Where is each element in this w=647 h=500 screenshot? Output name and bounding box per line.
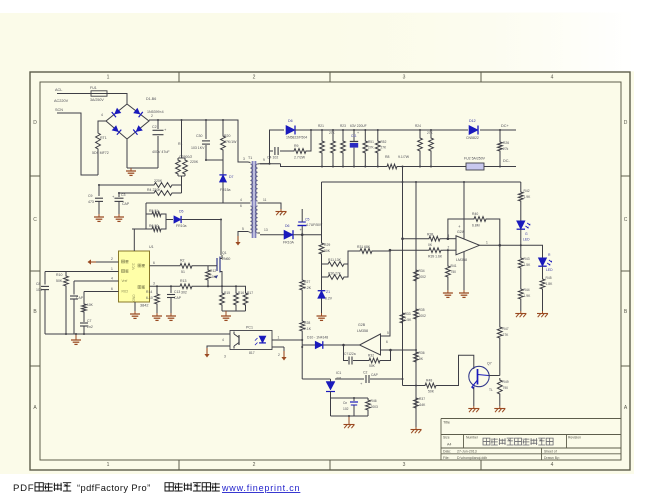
optocoupler PC1 pin wires [272, 339, 302, 341]
svg-text:D12: D12 [469, 119, 476, 123]
svg-text:Cn: Cn [343, 401, 347, 405]
IC pin4 wire [74, 280, 119, 282]
svg-text:1.5K: 1.5K [524, 263, 532, 267]
svg-text:1: 1 [111, 267, 113, 271]
resistor R34 2002 [414, 268, 419, 283]
svg-text:27K: 27K [427, 131, 434, 135]
svg-text:50K: 50K [324, 249, 331, 253]
frame column ticks [30, 72, 630, 470]
op-amp G2B LM358 [360, 334, 381, 355]
svg-text:27k: 27k [503, 147, 509, 151]
svg-text:3842: 3842 [140, 304, 148, 308]
svg-text:R44: R44 [524, 288, 530, 292]
svg-text:103 1KV: 103 1KV [191, 146, 205, 150]
op-amp G2A LM358 [456, 236, 480, 255]
ground bottom-left rail [75, 334, 77, 337]
wire snubber right join [163, 214, 166, 229]
svg-text:U1: U1 [149, 245, 154, 249]
svg-text:DC-: DC- [503, 159, 510, 163]
capacitor C9 473 [95, 197, 103, 199]
diode D9 FR10A [284, 230, 293, 239]
wire bridge left vertex to RT1 [98, 121, 106, 131]
wire secondary mid to ground [260, 203, 281, 209]
svg-text:CN5822: CN5822 [466, 136, 479, 140]
optocoupler PC1 phototransistor [238, 335, 240, 345]
diode D5 FR10a [166, 219, 173, 221]
wire op-amp V+ supply [463, 182, 465, 239]
svg-text:R11 13K: R11 13K [328, 258, 342, 262]
svg-text:D6: D6 [285, 224, 290, 228]
ground under Q7 [473, 406, 475, 409]
IC pin1 long wire left [45, 271, 119, 273]
wire aux column to TL431 [302, 378, 330, 380]
capacitor C7 2n2 [83, 314, 85, 322]
svg-text:D10 - 1N4148: D10 - 1N4148 [307, 336, 328, 340]
svg-text:R45: R45 [546, 276, 552, 280]
resistor R10 50K [65, 272, 67, 275]
fuse FU2 5A/250V [466, 163, 484, 170]
svg-text:1N5399×4: 1N5399×4 [147, 110, 164, 114]
wire G LED to R43 [520, 245, 522, 256]
svg-text:64K: 64K [420, 403, 427, 407]
filter bank resistor R23 27K [342, 130, 344, 139]
svg-text:Size: Size [443, 436, 450, 440]
wire feedback bottom rail to PC1 [45, 333, 230, 335]
ground under R45 [542, 311, 544, 314]
svg-text:R51: R51 [368, 140, 374, 144]
ground under C9 [98, 214, 100, 217]
svg-text:4.7UF/50V: 4.7UF/50V [306, 223, 323, 227]
svg-text:1.9K: 1.9K [524, 195, 532, 199]
svg-text:R21: R21 [318, 124, 324, 128]
svg-text:C30: C30 [196, 134, 202, 138]
diode D12 CN5822 [469, 126, 478, 135]
svg-text:0.5K: 0.5K [405, 318, 413, 322]
svg-text:DC+: DC+ [501, 124, 509, 128]
resistor R37 64K [414, 396, 419, 410]
svg-text:GND: GND [132, 294, 136, 302]
svg-text:9: 9 [263, 158, 265, 162]
wire sense resistor bottoms [222, 310, 246, 312]
wire primary top rail [149, 120, 248, 162]
svg-text:R39 1.6K: R39 1.6K [428, 255, 443, 259]
capacitor C3 [115, 197, 124, 199]
transistor Q7 [469, 366, 489, 386]
svg-text:6.8M: 6.8M [472, 224, 480, 228]
capacitor C30 103 1KV [205, 120, 207, 139]
IC U1 top VCC pin [133, 229, 135, 251]
svg-text:Z1: Z1 [326, 290, 330, 294]
svg-text:D7: D7 [229, 175, 234, 179]
bleeder resistor R25 27K [430, 130, 432, 136]
sense resistor R17 [245, 286, 247, 291]
ground under R41 [447, 290, 449, 293]
svg-text:750: 750 [451, 270, 457, 274]
svg-text:2.2K: 2.2K [304, 286, 312, 290]
svg-text:Date:: Date: [443, 450, 451, 454]
resistor R48 50K [423, 383, 438, 388]
ground under IC U1 [134, 311, 136, 314]
svg-text:R36: R36 [419, 351, 425, 355]
svg-text:C13: C13 [174, 290, 180, 294]
resistor R27 2.2K [300, 278, 305, 292]
svg-text:27K: 27K [381, 146, 388, 150]
svg-text:3: 3 [224, 355, 226, 359]
IC U1 internal pin names [122, 260, 129, 263]
svg-text:R9: R9 [294, 144, 299, 148]
transformer pin stubs [248, 162, 260, 233]
sense resistor R16 [235, 286, 237, 291]
wire R31 to pin2 node [374, 250, 390, 252]
wire Q7 collector [489, 375, 500, 377]
ground under R14 [156, 313, 158, 316]
svg-text:G2B: G2B [358, 323, 366, 327]
svg-text:D: D [624, 120, 628, 126]
svg-text:6: 6 [240, 204, 242, 208]
wire SCN down [57, 113, 98, 175]
power port below PC1 right [283, 351, 285, 357]
wire DC+ rail [295, 129, 468, 131]
svg-text:Q1: Q1 [222, 251, 227, 255]
wire C30 bottom to R20 branch [206, 159, 223, 161]
resistor R28 2.1K [300, 319, 305, 333]
svg-text:CAP: CAP [122, 202, 130, 206]
svg-text:FR10a: FR10a [176, 224, 187, 228]
svg-text:TL: TL [489, 388, 493, 392]
thermistor RT1 [97, 125, 99, 131]
svg-text:790: 790 [503, 386, 509, 390]
svg-text:R29: R29 [324, 243, 330, 247]
svg-text:1: 1 [107, 75, 110, 81]
wire TL431 lower network [331, 397, 369, 399]
zener Z1 6.2V [318, 291, 326, 299]
svg-text:R46: R46 [371, 399, 377, 403]
svg-text:3: 3 [153, 282, 155, 286]
svg-text:R14: R14 [146, 290, 152, 294]
ground secondary mid [280, 209, 282, 212]
svg-text:102: 102 [343, 407, 349, 411]
svg-text:47K/1W: 47K/1W [224, 140, 237, 144]
svg-text:2: 2 [111, 257, 113, 261]
svg-text:9.1/7W: 9.1/7W [398, 155, 410, 159]
svg-text:LM358: LM358 [456, 258, 467, 262]
svg-text:R52: R52 [381, 140, 387, 144]
svg-text:104: 104 [36, 288, 42, 292]
wire op-amp pin2 input [390, 249, 427, 251]
resistor R26 27k across output [499, 130, 501, 140]
svg-text:Q7: Q7 [487, 362, 492, 366]
svg-text:50K: 50K [369, 364, 376, 368]
title block frame [441, 419, 621, 461]
capacitor C10 CAP [73, 281, 75, 295]
resistor R33 0.5K [400, 311, 405, 325]
resistor R42 1.9K [520, 182, 522, 190]
svg-text:1.9K: 1.9K [524, 294, 532, 298]
svg-text:63V 220UF: 63V 220UF [350, 124, 367, 128]
resistor R13 302 [178, 284, 194, 289]
wire ACL to fuse [57, 93, 91, 95]
svg-text:SCN: SCN [55, 108, 63, 112]
wire Q7 emitter to ground [473, 388, 475, 407]
MOSFET Q1 2N60 [216, 258, 218, 271]
wire R48 to Q7 base jog [438, 355, 474, 385]
svg-text:6-10: 6-10 [146, 296, 153, 300]
resistor R29 50K [319, 241, 324, 256]
svg-text:1: 1 [278, 336, 280, 340]
wire comparator divider column [415, 182, 417, 427]
svg-text:CAP: CAP [174, 296, 182, 300]
capacitor C16 102 [353, 398, 355, 401]
watermark Chinese phrase 2 [165, 483, 220, 491]
svg-text:R2: R2 [180, 259, 185, 263]
wire R40 to output node [488, 219, 500, 245]
svg-text:5: 5 [387, 331, 389, 335]
capacitor C13 CAP [170, 286, 172, 293]
wire red LED branch [521, 245, 543, 257]
bleeder resistor R24 27K [419, 130, 421, 136]
capacitor C15 CAP [335, 378, 364, 380]
svg-text:5D9 MF72: 5D9 MF72 [92, 151, 109, 155]
wire sense divider column top [321, 182, 323, 241]
svg-text:1: 1 [107, 462, 110, 468]
transformer T1 core [252, 161, 256, 238]
transformer primary winding upper [250, 164, 252, 201]
svg-text:VCC: VCC [132, 262, 136, 269]
power port left of IC [91, 261, 96, 263]
ground under comparator divider [415, 427, 417, 430]
resistor R12 10K gate-source [207, 266, 209, 268]
svg-text:51: 51 [181, 270, 185, 274]
svg-text:6.2V: 6.2V [325, 297, 333, 301]
svg-text:2: 2 [278, 353, 280, 357]
svg-text:50K: 50K [428, 390, 435, 394]
wire PC1 ground leg [207, 346, 230, 348]
filter bank resistor R52 27K [377, 130, 379, 139]
title block Chinese title [483, 438, 553, 445]
wire R2 to Q1 gate [194, 265, 215, 267]
svg-text:ACL: ACL [55, 88, 62, 92]
svg-text:50K: 50K [56, 279, 63, 283]
svg-text:R10: R10 [56, 273, 62, 277]
svg-text:6: 6 [153, 261, 155, 265]
svg-text:LED: LED [523, 238, 530, 242]
wire VCC from R6 line [132, 228, 146, 230]
wire transformer mid tap [146, 202, 248, 204]
svg-text:R16: R16 [238, 291, 244, 295]
svg-text:R12: R12 [210, 269, 216, 273]
svg-text:R4 220K: R4 220K [147, 188, 161, 192]
svg-text:LED: LED [546, 268, 553, 272]
svg-text:27K: 27K [329, 131, 336, 135]
svg-text:R32: R32 [368, 354, 374, 358]
svg-text:C7: C7 [87, 319, 92, 323]
zener D7 FR15a [219, 175, 226, 182]
resistor R36 1.9K [414, 350, 419, 364]
svg-text:R6 50: R6 50 [149, 224, 158, 228]
resistor R19 10K [83, 292, 85, 303]
IC pin6 wire [84, 291, 119, 293]
wire fuse to bridge top [107, 94, 127, 105]
wire D9 to C5 node [293, 234, 322, 236]
svg-text:IC1: IC1 [336, 371, 341, 375]
optocoupler PC1 body [230, 331, 272, 350]
IC pin2 wire to power arrow [96, 261, 119, 263]
feedback wire to R40 [448, 219, 472, 239]
power port below PC1 left [206, 348, 208, 354]
svg-text:R28: R28 [304, 321, 310, 325]
svg-text:FR15a: FR15a [220, 188, 231, 192]
svg-text:CAP: CAP [76, 296, 84, 300]
svg-text:R24: R24 [415, 124, 421, 128]
bridge rectifier D1-B6 [106, 104, 149, 139]
svg-text:3: 3 [403, 462, 406, 468]
filter bank resistor R22 27K [332, 130, 334, 139]
transformer secondary winding lower [256, 206, 258, 233]
filter bank resistor R51 27K [364, 130, 366, 139]
wire secondary pin9 up [260, 130, 284, 164]
capacitor C14 122a integrator [344, 345, 349, 361]
outer border frame [30, 72, 630, 470]
capacitor C2 [157, 120, 159, 129]
wire op-amp pin3 input [403, 238, 428, 240]
resistor R11 13K [322, 263, 327, 265]
svg-text:C8: C8 [36, 282, 41, 286]
svg-text:R47: R47 [503, 327, 509, 331]
svg-text:2002: 2002 [419, 275, 427, 279]
svg-text:2N60: 2N60 [222, 257, 230, 261]
fuse FU1 [91, 91, 107, 96]
svg-text:220K: 220K [190, 160, 199, 164]
svg-text:R15: R15 [224, 291, 230, 295]
IC U1 bottom GND pin [134, 302, 136, 311]
svg-text:C4 102: C4 102 [267, 156, 278, 160]
svg-text:A4: A4 [447, 443, 451, 447]
svg-text:R34: R34 [419, 269, 425, 273]
svg-text:27K: 27K [503, 333, 510, 337]
svg-text:4: 4 [551, 462, 554, 468]
svg-text:3A/250V: 3A/250V [90, 98, 104, 102]
junction dots on rails [157, 119, 159, 121]
svg-text:C3: C3 [121, 193, 126, 197]
resistor R5 51 [150, 212, 163, 217]
svg-text:2: 2 [151, 114, 153, 118]
svg-text:10K: 10K [87, 303, 94, 307]
resistor R31 68K [358, 249, 374, 254]
svg-text:D:\chongdianqi.ddb: D:\chongdianqi.ddb [457, 456, 487, 460]
svg-text:Drawn By:: Drawn By: [544, 456, 560, 460]
svg-text:3: 3 [403, 75, 406, 81]
svg-text:R31 68K: R31 68K [357, 245, 371, 249]
svg-text:R42: R42 [524, 189, 530, 193]
wire op-amp output [480, 244, 521, 246]
svg-text:4: 4 [101, 113, 103, 117]
resistor R20 47K/1W [222, 120, 224, 134]
svg-text:1N5822/F504: 1N5822/F504 [286, 136, 307, 140]
svg-text:C2500/2: C2500/2 [179, 155, 192, 159]
svg-text:4: 4 [240, 198, 242, 202]
svg-text:Title: Title [443, 421, 450, 425]
svg-text:R37: R37 [419, 397, 425, 401]
resistor R35 2002 [414, 307, 419, 321]
svg-text:C9: C9 [88, 194, 93, 198]
ground under sense resistors [225, 313, 227, 316]
inner border frame [40, 82, 621, 460]
svg-text:2: 2 [253, 462, 256, 468]
wire G2B pin5 to pin2 node [381, 250, 391, 336]
svg-text:C11: C11 [351, 134, 357, 138]
svg-text:CAP: CAP [371, 373, 379, 377]
svg-text:G: G [525, 232, 528, 236]
LED R red [538, 258, 546, 266]
resistor R41 750 [447, 250, 449, 264]
svg-text:220K: 220K [154, 179, 163, 183]
svg-text:27K: 27K [368, 146, 375, 150]
svg-text:R20: R20 [224, 134, 230, 138]
svg-text:Number: Number [466, 436, 479, 440]
svg-text:C?122a: C?122a [344, 352, 356, 356]
svg-text:FR10A: FR10A [283, 241, 295, 245]
svg-text:PDF: PDF [13, 483, 34, 494]
svg-text:7: 7 [280, 213, 282, 217]
svg-text:AC220V: AC220V [54, 99, 69, 103]
svg-text:PC1: PC1 [246, 326, 253, 330]
transformer primary winding lower [250, 206, 252, 233]
power port primary bottom [237, 236, 239, 242]
resistor R32 50K integrator [367, 358, 382, 363]
ground under Z1 [321, 313, 323, 316]
svg-text:817: 817 [249, 351, 255, 355]
svg-text:D6: D6 [288, 119, 293, 123]
wire DC- rail [281, 164, 386, 167]
svg-text:FU1: FU1 [90, 86, 97, 90]
svg-text:11: 11 [263, 198, 267, 202]
svg-text:2.1K: 2.1K [304, 327, 312, 331]
resistor R47 27K [497, 325, 502, 340]
svg-text:R35: R35 [419, 308, 425, 312]
IC output pin wire [150, 265, 179, 267]
wire ground rail under bridge [127, 167, 158, 169]
resistor R30 27k [322, 276, 327, 278]
resistor R38 0K [427, 236, 442, 241]
wire D5 to Q1 drain [220, 220, 222, 256]
svg-text:2: 2 [253, 75, 256, 81]
svg-text:Vref: Vref [122, 279, 128, 283]
svg-text:T1: T1 [248, 156, 252, 160]
svg-text:5: 5 [242, 227, 244, 231]
svg-text:302: 302 [181, 291, 187, 295]
resistor R1 2500/2 [181, 120, 183, 158]
wire G2B pin6 feedback [381, 349, 417, 351]
wire output column down [499, 245, 501, 325]
resistor R43 1.5K [518, 256, 523, 270]
svg-text:3: 3 [243, 157, 245, 161]
wire TL431 network bottom [331, 415, 369, 417]
wire sense line [194, 285, 246, 287]
svg-text:R41: R41 [451, 264, 457, 268]
svg-text:+: + [458, 224, 461, 229]
resistor R8 9.1/7W [385, 164, 399, 169]
svg-text:4: 4 [111, 277, 113, 281]
resistor R40 6.8M [472, 217, 488, 222]
svg-text:400V 47uF: 400V 47uF [152, 150, 170, 154]
wire bridge bottom to ground [126, 139, 128, 168]
resistor R45 1.8K [540, 277, 545, 291]
svg-text:C2: C2 [363, 371, 367, 375]
wire Q7 base network [403, 385, 424, 387]
resistor R44 1.9K [518, 287, 523, 301]
wire secondary pin13 to D9 [260, 234, 284, 236]
svg-text:File:: File: [443, 456, 449, 460]
